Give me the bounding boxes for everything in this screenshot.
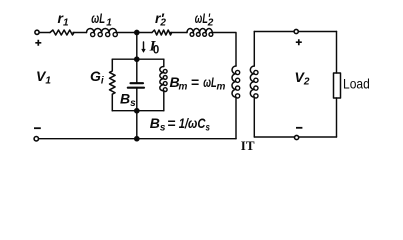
svg-text:Gi: Gi [90,68,104,87]
wire (secondary bottom) [254,136,336,138]
svg-text:2: 2 [207,18,214,29]
svg-text:Bs: Bs [150,115,166,134]
shunt top rail wire [112,58,164,60]
load box [334,73,341,98]
svg-text:V1: V1 [36,68,51,87]
wire [39,32,50,34]
wire (bottom) [39,138,236,140]
wire (secondary top) [254,31,336,33]
svg-text:m: m [217,82,226,93]
svg-text:r′2: r′2 [155,10,166,29]
inductor L2' [187,28,212,32]
terminal - (secondary, open circle on wire) [295,135,299,139]
svg-text:1: 1 [106,18,112,29]
resistor r2' [152,30,172,35]
svg-text:r1: r1 [58,10,69,29]
svg-text:Load: Load [343,76,370,92]
svg-text:ωL: ωL [203,74,217,90]
shunt bottom rail wire [112,110,164,112]
node A (top junction) [135,30,139,34]
wire (middle column lower) [136,111,138,139]
svg-text:IT: IT [241,138,255,153]
resistor r1 [50,30,74,35]
wire (middle column upper) [136,33,138,60]
svg-text:0: 0 [153,45,159,57]
terminal + (primary, open circle) [35,30,39,34]
label - (secondary) [296,127,302,129]
conductance Gi resistor [110,59,116,110]
node D (bottom wire junction) [135,137,139,141]
current arrow I0 [143,42,145,50]
wire [171,32,188,34]
transformer primary winding [232,66,236,97]
wire (secondary right) [336,32,338,74]
wire (top right to primary corner) [213,33,237,67]
inductor Bm (right branch) [163,59,165,66]
node B (shunt top junction) [135,57,139,61]
svg-text:V2: V2 [295,69,310,88]
svg-text:Bs: Bs [120,91,136,110]
svg-text:=: = [191,74,199,90]
label - (primary) [34,127,41,129]
capacitor Bs (middle branch) [136,59,138,83]
svg-text:1/ωCs: 1/ωCs [179,115,211,134]
label + (primary) [35,40,41,46]
svg-text:ωL: ωL [91,10,105,26]
terminal - (primary, open circle) [34,137,38,141]
node C (shunt bottom junction) [135,109,139,113]
label + (secondary) [296,39,302,45]
svg-text:=: = [167,115,175,131]
wire [117,32,153,34]
inductor L1 [87,29,117,33]
terminal + (secondary, open circle on wire) [294,29,298,33]
svg-text:m: m [179,82,188,93]
transformer secondary winding [253,32,255,67]
wire [73,32,87,34]
